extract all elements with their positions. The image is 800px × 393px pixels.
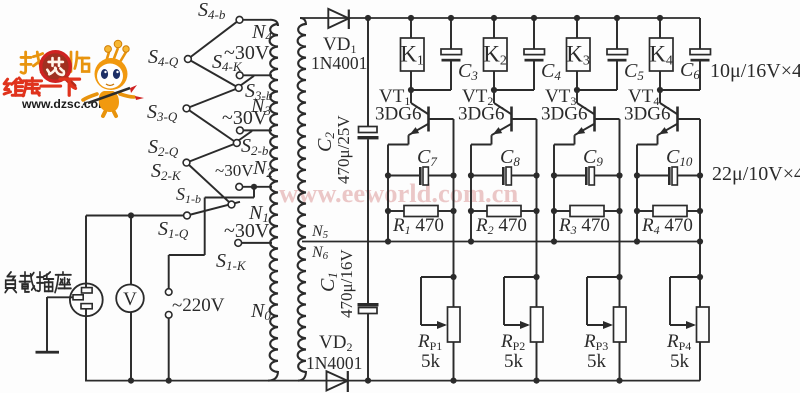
svg-text:3DG6: 3DG6: [375, 104, 421, 125]
C1 plus plate: [359, 308, 378, 314]
wire sec bottom curve: [298, 371, 306, 381]
wire VT2 base line down to RP2: [536, 119, 538, 307]
svg-text:3DG6: 3DG6: [458, 104, 504, 125]
svg-text:1N4001: 1N4001: [311, 53, 367, 73]
node S4-b contact: [236, 16, 243, 23]
wire K2 branch from top bus: [493, 18, 495, 38]
node emitter-bus junction ch3: [551, 238, 557, 244]
wire K2 to VT2 collector: [493, 71, 495, 90]
wire VT3 emitter to center bus: [574, 135, 576, 144]
wire coil top curve: [270, 20, 278, 26]
switch S4 blade Q-b: [188, 20, 240, 59]
wire S3-b stub: [241, 76, 255, 86]
node C10 left junction: [634, 172, 640, 178]
svg-text:R3 470: R3 470: [558, 215, 610, 237]
node collector junction VT4: [657, 87, 663, 93]
logo 维库一下 (red chars): [4, 78, 24, 95]
svg-text:R4 470: R4 470: [641, 215, 693, 237]
load socket 负载插座: [70, 283, 103, 316]
node S4-Q contact: [185, 56, 192, 63]
node top bus junction K3: [574, 15, 580, 21]
svg-text:5k: 5k: [670, 351, 690, 372]
svg-text:470μ/16V: 470μ/16V: [337, 249, 356, 318]
diode VD2 1N4001: [327, 371, 348, 390]
node collector junction VT1: [408, 87, 414, 93]
resistor R1 470: [385, 208, 391, 214]
wire to 220V top terminal: [168, 255, 170, 289]
wire VT1 base: [430, 118, 454, 120]
node S2-K contact: [236, 183, 243, 190]
capacitor C7 22u/10V: [388, 175, 419, 177]
node C7 right junction: [450, 172, 456, 178]
node S2-b contact: [233, 140, 240, 147]
svg-text:~30V: ~30V: [222, 107, 268, 129]
wire K4 branch from top bus: [659, 18, 661, 38]
transistor VT4 3DG6: [659, 90, 661, 103]
logo 找芯片 (gold chars): [21, 52, 45, 73]
wire down x204: [204, 198, 206, 256]
node S1-Q contact: [184, 212, 191, 219]
node S4-K contact: [236, 72, 243, 79]
capacitor C3 10u/16V: [441, 49, 462, 55]
node S1-b contact: [228, 201, 235, 208]
wire VT3 base line down to RP3: [619, 119, 621, 307]
wire RP2 to bottom bus: [536, 342, 538, 381]
node top bus junction K1: [408, 15, 414, 21]
wire K1 branch from top bus: [410, 18, 412, 38]
svg-text:470μ/25V: 470μ/25V: [334, 115, 353, 184]
wire C4 branch from top bus: [531, 15, 537, 21]
transistor VT3 3DG6: [576, 90, 578, 103]
wire socket to ground: [47, 296, 73, 298]
node top bus junction K2: [491, 15, 497, 21]
node tap3 junction: [251, 184, 257, 190]
diode VD1 1N4001: [328, 9, 349, 28]
transistor VT2 3DG6: [493, 90, 495, 103]
wire tap3 down: [253, 187, 255, 198]
wire RP3 to bottom bus: [619, 342, 621, 381]
potentiometer RP4 5k: [697, 274, 703, 280]
wire center-tap bus N5/N6: [302, 241, 700, 243]
logo mascot: [82, 40, 144, 116]
label 负载插座 (load socket): [5, 272, 16, 292]
wire to socket: [85, 216, 87, 289]
svg-text:3DG6: 3DG6: [624, 104, 670, 125]
wire output to S1-Q: [86, 215, 184, 217]
wire tap2 (S3-K): [243, 129, 272, 131]
wire K1 to VT1 collector: [410, 71, 412, 90]
node 220V-bus junction: [166, 378, 172, 384]
wire to S1-b row: [205, 197, 254, 199]
wire jog left: [169, 254, 205, 256]
svg-text:~30V: ~30V: [224, 42, 270, 64]
svg-text:R1 470: R1 470: [392, 215, 444, 237]
wire C5 to collector node: [616, 62, 618, 91]
switch S2 blade Q-b: [187, 143, 237, 163]
wire VT2 base: [513, 118, 537, 120]
node S3-Q contact: [183, 105, 190, 112]
node S1-K contact: [235, 240, 242, 247]
svg-text:5k: 5k: [587, 351, 607, 372]
node collector junction VT2: [491, 87, 497, 93]
wire S2-b stub: [239, 131, 253, 141]
wire C3 to collector node: [450, 62, 452, 91]
node meter-bus junction: [128, 378, 134, 384]
ground: [36, 351, 60, 354]
wire top bus: [300, 17, 700, 19]
wire tap4 (S1-K): [242, 242, 272, 244]
transformer primary-side coil N4..N0: [270, 24, 278, 372]
wire meter to bus: [130, 312, 132, 381]
node C8 right junction: [533, 172, 539, 178]
capacitor C8 22u/10V: [471, 175, 502, 177]
wire socket to bus: [85, 309, 87, 381]
svg-text:3DG6: 3DG6: [541, 104, 587, 125]
node collector junction VT3: [574, 87, 580, 93]
wire VT4 base: [679, 118, 701, 120]
wire K3 branch from top bus: [576, 18, 578, 38]
potentiometer RP2 5k: [533, 274, 539, 280]
capacitor C9 22u/10V: [554, 175, 585, 177]
svg-text:10μ/16V×4: 10μ/16V×4: [710, 60, 800, 82]
svg-text:1N4001: 1N4001: [306, 353, 362, 373]
svg-text:5k: 5k: [504, 351, 524, 372]
switch S3 blade Q to S2-b: [187, 108, 237, 143]
socket slot bottom: [81, 304, 92, 309]
switch S4 blade Q to S3-b: [188, 59, 239, 88]
wire C4 to collector node: [533, 62, 535, 91]
svg-text:~220V: ~220V: [172, 295, 225, 316]
capacitor C5 10u/16V: [607, 49, 628, 55]
switch S3 blade Q-b: [187, 88, 239, 109]
svg-text:~30V: ~30V: [215, 161, 254, 180]
node S3-K contact: [237, 127, 244, 134]
C2 plus plate: [359, 127, 378, 133]
node S3-b contact: [235, 85, 242, 92]
potentiometer RP1 5k: [450, 274, 456, 280]
wire tap1 (S4-K): [243, 74, 272, 76]
wire C6 branch from top bus: [699, 18, 701, 49]
capacitor C4 10u/16V: [524, 49, 545, 55]
socket slot top: [82, 288, 93, 293]
svg-text:22μ/10V×4: 22μ/10V×4: [712, 163, 800, 185]
C2 minus plate: [358, 136, 379, 139]
transformer secondary coil N5/N6: [298, 24, 306, 372]
wire C3 branch from top bus: [448, 15, 454, 21]
potentiometer RP3 5k: [616, 274, 622, 280]
switch S1 blade: [187, 202, 240, 216]
wire bottom bus: [85, 380, 700, 382]
wire C5 branch from top bus: [614, 15, 620, 21]
wire 220V to bottom bus: [168, 318, 170, 381]
wire VT1 base line down to RP1: [453, 119, 455, 307]
capacitor C2 470u/25V: [367, 18, 369, 127]
node S2-Q contact: [183, 159, 190, 166]
node output junction: [128, 212, 134, 218]
svg-text:V: V: [123, 289, 137, 310]
node ~220V top terminal: [165, 289, 172, 296]
resistor R2 470: [468, 208, 474, 214]
relay coil K4: [650, 38, 674, 71]
node bus end ch4: [697, 238, 703, 244]
wire VT1 emitter to center bus: [408, 135, 410, 144]
svg-text:R2 470: R2 470: [475, 215, 527, 237]
node emitter-bus junction ch2: [468, 238, 474, 244]
wire VT2 emitter to center bus: [491, 135, 493, 144]
svg-text:~30V: ~30V: [224, 220, 270, 242]
wire K4 to VT4 collector: [659, 71, 661, 90]
wire C6 to collector node: [699, 62, 701, 91]
wire VT3 base: [596, 118, 620, 120]
node C2-bus junction: [365, 15, 371, 21]
wire ground drop: [46, 297, 48, 352]
logo magnifier red ring: [41, 52, 71, 82]
relay coil K1: [401, 38, 425, 71]
node C1-bus junction: [365, 378, 371, 384]
socket slot left: [73, 295, 83, 300]
relay coil K2: [484, 38, 508, 71]
wire RP1 to bottom bus: [453, 342, 455, 381]
svg-text:5k: 5k: [421, 351, 441, 372]
wire VT4 base line down to RP4: [699, 119, 701, 307]
voltmeter V: [130, 216, 132, 286]
wire sec top curve: [300, 18, 306, 25]
resistor R4 470: [634, 208, 640, 214]
wire K3 to VT3 collector: [576, 71, 578, 90]
wire RP4 to bottom bus: [699, 342, 701, 381]
node emitter-bus junction ch1: [385, 238, 391, 244]
C1 minus plate: [358, 303, 379, 306]
wire C2-C1: [367, 139, 369, 303]
capacitor C10 22u/10V: [637, 175, 668, 177]
svg-text:www.eeworld.com.cn: www.eeworld.com.cn: [279, 178, 518, 208]
node top bus junction K4: [657, 15, 663, 21]
wire tap0 to S4-b: [243, 19, 270, 21]
resistor R3 470: [551, 208, 557, 214]
transistor VT1 3DG6: [410, 90, 412, 103]
node C7 left junction: [385, 172, 391, 178]
wire VT4 emitter to center bus: [657, 135, 659, 144]
wire coil bottom curve: [268, 371, 278, 381]
switch S2 blade Q to S1-b: [187, 163, 232, 205]
node C10 right junction: [697, 172, 703, 178]
node ~220V bottom terminal: [165, 312, 172, 319]
capacitor C6 10u/16V: [690, 49, 711, 55]
wire tap3 (S2-K): [243, 186, 273, 188]
node C9 right junction: [616, 172, 622, 178]
relay coil K3: [567, 38, 591, 71]
node emitter-bus junction ch4: [634, 238, 640, 244]
node C8 left junction: [468, 172, 474, 178]
node C9 left junction: [551, 172, 557, 178]
